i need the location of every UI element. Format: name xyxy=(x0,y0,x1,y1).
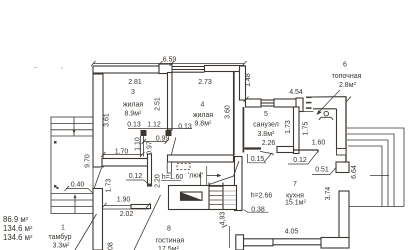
svg-text:1.48: 1.48 xyxy=(245,73,252,87)
svg-text:3.74: 3.74 xyxy=(325,187,332,201)
svg-text:6: 6 xyxy=(343,62,347,69)
svg-text:h=1.60: h=1.60 xyxy=(162,174,184,181)
svg-text:134.6 м2: 134.6 м2 xyxy=(3,224,33,233)
svg-text:'люк': 'люк' xyxy=(188,173,203,180)
svg-text:0.15: 0.15 xyxy=(251,156,265,163)
svg-text:санузел: санузел xyxy=(253,122,279,129)
svg-text:3: 3 xyxy=(131,89,135,96)
svg-text:1.08: 1.08 xyxy=(108,242,115,250)
svg-text:134.6 м2: 134.6 м2 xyxy=(3,233,33,242)
svg-text:86.9 м2: 86.9 м2 xyxy=(3,215,29,224)
svg-text:0.99: 0.99 xyxy=(156,136,170,143)
svg-text:6.64: 6.64 xyxy=(351,165,358,179)
svg-text:жилая: жилая xyxy=(123,102,144,109)
svg-text:9.70: 9.70 xyxy=(85,154,92,168)
svg-text:0.40: 0.40 xyxy=(71,182,85,189)
svg-text:2.26: 2.26 xyxy=(262,140,276,147)
svg-text:15.1м2: 15.1м2 xyxy=(285,199,306,207)
svg-text:4.05: 4.05 xyxy=(285,229,299,236)
svg-text:1.90: 1.90 xyxy=(117,197,131,204)
svg-text:1.70: 1.70 xyxy=(115,149,129,156)
svg-text:6.59: 6.59 xyxy=(163,57,177,64)
svg-text:3.61: 3.61 xyxy=(104,113,111,127)
svg-text:2.20: 2.20 xyxy=(155,174,162,188)
svg-text:0.13: 0.13 xyxy=(127,122,141,129)
svg-text:4.54: 4.54 xyxy=(289,89,303,96)
svg-text:2.51: 2.51 xyxy=(155,97,162,111)
svg-text:тамбур: тамбур xyxy=(49,233,72,241)
svg-text:0.38: 0.38 xyxy=(251,207,265,214)
svg-text:5: 5 xyxy=(264,111,268,118)
svg-text:1.12: 1.12 xyxy=(147,122,161,129)
svg-text:17.5м2: 17.5м2 xyxy=(158,245,179,250)
svg-text:2.81: 2.81 xyxy=(128,79,142,86)
svg-text:0.51: 0.51 xyxy=(315,167,329,174)
svg-text:h=2.66: h=2.66 xyxy=(251,193,273,200)
svg-text:1.73: 1.73 xyxy=(285,120,292,134)
svg-text:1.73: 1.73 xyxy=(106,179,113,193)
svg-text:2.73: 2.73 xyxy=(198,79,212,86)
svg-text:0.12: 0.12 xyxy=(293,157,307,164)
svg-text:жилая: жилая xyxy=(193,112,214,119)
svg-text:4,93: 4,93 xyxy=(220,212,227,226)
svg-text:1.75: 1.75 xyxy=(303,122,310,136)
svg-text:0.12: 0.12 xyxy=(129,173,143,180)
svg-text:2.02: 2.02 xyxy=(120,211,134,218)
svg-text:гостиная: гостиная xyxy=(156,238,185,245)
svg-text:1.60: 1.60 xyxy=(312,140,326,147)
svg-text:кухня: кухня xyxy=(286,193,304,200)
svg-text:0.13: 0.13 xyxy=(178,124,192,131)
svg-text:3.60: 3.60 xyxy=(225,105,232,119)
svg-text:1.10: 1.10 xyxy=(135,137,142,151)
svg-text:0.97: 0.97 xyxy=(147,141,154,155)
svg-text:1: 1 xyxy=(61,225,65,232)
svg-text:8: 8 xyxy=(167,226,171,233)
svg-text:4: 4 xyxy=(201,102,205,109)
svg-text:7: 7 xyxy=(293,181,297,188)
svg-text:топочная: топочная xyxy=(332,73,362,80)
